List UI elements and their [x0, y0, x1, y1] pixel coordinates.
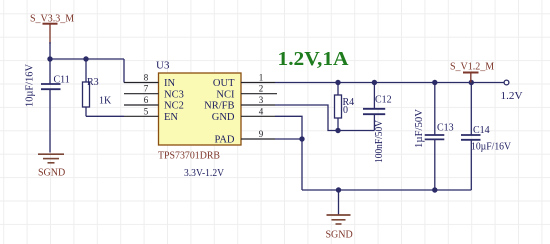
wire: C11 top lead: [49, 59, 51, 84]
wire: NR/FB net: [275, 105, 374, 131]
svg-text:10µF/16V: 10µF/16V: [471, 141, 512, 152]
svg-text:8: 8: [144, 73, 149, 83]
node: junction C12 top: [372, 80, 377, 85]
resistor R3: [83, 59, 90, 116]
svg-text:IN: IN: [164, 78, 175, 89]
pin 5 EN: [124, 115, 159, 117]
capacitor C14: [461, 83, 481, 191]
wire: PAD pin to GND net: [275, 138, 302, 140]
svg-text:1K: 1K: [99, 96, 112, 107]
svg-text:C11: C11: [54, 74, 70, 85]
node: junction at C11 top: [47, 56, 52, 61]
svg-text:GND: GND: [212, 112, 235, 123]
svg-text:TPS73701DRB: TPS73701DRB: [158, 150, 220, 161]
capacitor C13: [425, 83, 445, 191]
node: junction C14 top: [469, 80, 474, 85]
svg-text:C14: C14: [473, 125, 490, 136]
svg-text:C12: C12: [375, 94, 392, 105]
svg-text:3: 3: [259, 95, 264, 105]
svg-text:9: 9: [259, 129, 264, 139]
pin 3 NR/FB: [241, 104, 275, 106]
svg-text:5: 5: [144, 106, 149, 116]
wire: C11 bottom lead to ground: [49, 90, 51, 153]
svg-text:U3: U3: [156, 60, 170, 72]
node: junction PAD/GND: [299, 136, 304, 141]
wire: power stub to top rail: [49, 42, 51, 59]
svg-text:OUT: OUT: [213, 78, 235, 89]
svg-text:NC3: NC3: [164, 89, 184, 100]
svg-text:3.3V-1.2V: 3.3V-1.2V: [184, 168, 225, 179]
IC U3 TPS73701DRB body: [159, 73, 242, 145]
node: junction C13 bottom: [432, 187, 437, 192]
svg-text:NC2: NC2: [164, 101, 184, 112]
node: junction R4 top: [335, 80, 340, 85]
svg-text:S_V1.2_M: S_V1.2_M: [450, 62, 494, 73]
svg-text:NR/FB: NR/FB: [204, 101, 234, 112]
power port S_V1.2_M: [450, 62, 494, 83]
pin 7 NC3: [124, 93, 159, 95]
wire: GND pin down to bottom rail: [275, 116, 302, 190]
node: junction R4 bottom: [335, 128, 340, 133]
output terminal (1.2V): [504, 80, 509, 85]
svg-text:EN: EN: [164, 112, 178, 123]
svg-text:SGND: SGND: [326, 229, 353, 240]
svg-text:6: 6: [144, 95, 149, 105]
node: junction C13 top: [432, 80, 437, 85]
wire: R3 bottom to EN pin 5: [86, 115, 124, 117]
svg-text:4: 4: [259, 106, 264, 116]
svg-text:100nF/50V: 100nF/50V: [374, 119, 385, 163]
node: junction at R3 top: [83, 56, 88, 61]
capacitor C11: [41, 84, 61, 89]
svg-text:R3: R3: [87, 77, 99, 88]
wire: bottom ground rail: [302, 189, 471, 191]
power port S_V3.3_M: [30, 14, 74, 44]
resistor R4: [335, 83, 342, 131]
svg-text:1: 1: [259, 73, 264, 83]
pin 9 PAD: [241, 138, 275, 140]
pin 8 IN: [124, 82, 159, 84]
svg-text:SGND: SGND: [38, 167, 65, 178]
capacitor C12: [363, 83, 385, 131]
svg-text:10µF/16V: 10µF/16V: [25, 63, 36, 107]
ground SGND (middle): [326, 190, 353, 240]
wire: rail down to pin 8: [123, 59, 125, 83]
svg-text:1.2V,1A: 1.2V,1A: [278, 48, 350, 70]
wire: 3.3V top rail: [50, 58, 124, 60]
node: junction SGND on rail: [336, 187, 341, 192]
ground SGND (left): [38, 154, 65, 178]
pin 6 NC2: [124, 104, 159, 106]
pin 4 GND: [241, 115, 275, 117]
svg-text:1.2V: 1.2V: [501, 90, 523, 102]
wire: OUT rail to output terminal: [275, 82, 504, 84]
svg-text:0: 0: [343, 105, 348, 116]
svg-text:1µF/50V: 1µF/50V: [414, 108, 425, 148]
pin 1 OUT: [241, 82, 275, 84]
svg-text:NCI: NCI: [216, 89, 235, 100]
svg-text:7: 7: [144, 84, 149, 94]
svg-text:2: 2: [259, 84, 264, 94]
pin 2 NCI (no connect): [241, 93, 277, 95]
svg-text:C13: C13: [437, 123, 454, 134]
svg-text:PAD: PAD: [214, 135, 234, 146]
